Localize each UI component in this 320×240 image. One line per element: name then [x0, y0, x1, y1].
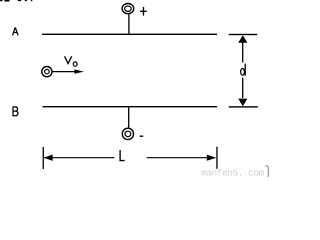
- svg-text:manfen5. com: manfen5. com: [201, 168, 265, 177]
